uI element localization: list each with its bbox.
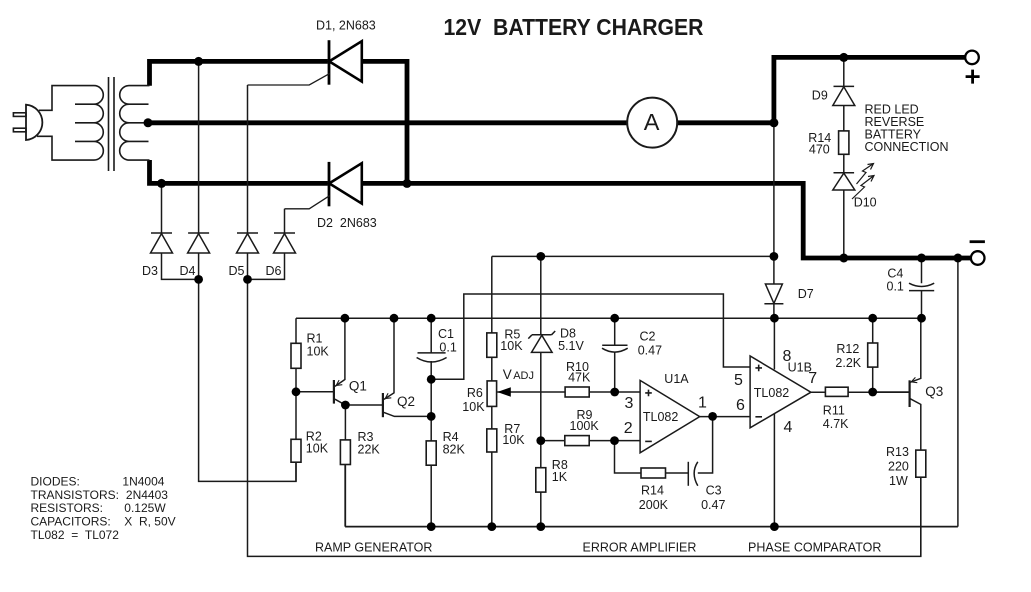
svg-text:200K: 200K (639, 498, 669, 512)
svg-text:U1A: U1A (664, 372, 689, 386)
svg-text:2.2K: 2.2K (835, 356, 861, 370)
svg-text:22K: 22K (358, 443, 381, 457)
svg-text:C3: C3 (706, 484, 722, 498)
svg-text:TRANSISTORS:: TRANSISTORS: (31, 488, 119, 502)
svg-text:4: 4 (784, 419, 793, 436)
svg-text:ERROR AMPLIFIER: ERROR AMPLIFIER (583, 541, 697, 555)
svg-text:5: 5 (734, 372, 743, 389)
svg-text:X R, 50V: X R, 50V (124, 514, 175, 528)
svg-text:R13: R13 (886, 445, 909, 459)
svg-text:10K: 10K (502, 433, 525, 447)
svg-text:R6: R6 (467, 386, 483, 400)
svg-text:10K: 10K (307, 345, 330, 359)
svg-text:1W: 1W (889, 474, 908, 488)
svg-text:RESISTORS:: RESISTORS: (31, 501, 103, 515)
svg-text:D5: D5 (229, 264, 245, 278)
svg-text:5.1V: 5.1V (558, 339, 584, 353)
svg-text:A: A (644, 109, 660, 135)
svg-text:RAMP GENERATOR: RAMP GENERATOR (315, 541, 432, 555)
svg-text:8: 8 (783, 348, 792, 365)
svg-text:DIODES:: DIODES: (31, 474, 80, 488)
svg-text:7: 7 (808, 370, 817, 387)
svg-text:D6: D6 (266, 264, 282, 278)
svg-text:82K: 82K (443, 443, 466, 457)
svg-text:TL082: TL082 (643, 410, 678, 424)
svg-text:D9: D9 (812, 89, 828, 103)
svg-text:47K: 47K (568, 371, 591, 385)
svg-text:Q2: Q2 (397, 394, 415, 409)
svg-text:2: 2 (624, 420, 633, 437)
svg-text:C4: C4 (887, 267, 903, 281)
svg-text:ADJ: ADJ (513, 370, 534, 382)
svg-text:CONNECTION: CONNECTION (865, 140, 949, 154)
svg-text:3: 3 (625, 395, 634, 412)
svg-text:4.7K: 4.7K (823, 417, 849, 431)
svg-text:D1, 2N683: D1, 2N683 (316, 19, 376, 33)
svg-text:1: 1 (698, 395, 707, 412)
svg-text:1N4004: 1N4004 (122, 474, 164, 488)
svg-text:D3: D3 (142, 264, 158, 278)
svg-text:100K: 100K (570, 419, 600, 433)
svg-text:10K: 10K (306, 441, 329, 455)
svg-text:10K: 10K (462, 400, 485, 414)
svg-text:Q3: Q3 (925, 384, 943, 399)
svg-text:0.1: 0.1 (439, 340, 456, 354)
svg-text:PHASE COMPARATOR: PHASE COMPARATOR (748, 541, 881, 555)
svg-text:R11: R11 (823, 403, 845, 417)
svg-text:TL082 = TL072: TL082 = TL072 (31, 528, 120, 542)
svg-text:Q1: Q1 (349, 379, 367, 394)
svg-text:12V BATTERY CHARGER: 12V BATTERY CHARGER (444, 14, 704, 40)
svg-text:470: 470 (809, 143, 830, 157)
svg-text:C1: C1 (438, 327, 454, 341)
svg-text:C2: C2 (640, 330, 656, 344)
svg-text:0.47: 0.47 (638, 344, 662, 358)
svg-text:10K: 10K (500, 339, 523, 353)
svg-text:D2 2N683: D2 2N683 (317, 216, 377, 230)
svg-text:1K: 1K (552, 470, 568, 484)
svg-text:D4: D4 (180, 264, 196, 278)
svg-text:D7: D7 (798, 287, 814, 301)
svg-text:R12: R12 (836, 342, 859, 356)
svg-text:R1: R1 (307, 332, 323, 346)
svg-text:TL082: TL082 (754, 386, 789, 400)
svg-text:2N4403: 2N4403 (126, 488, 168, 502)
svg-text:0.47: 0.47 (701, 498, 725, 512)
svg-text:V: V (503, 367, 512, 382)
svg-text:6: 6 (736, 397, 745, 414)
svg-text:D10: D10 (854, 196, 877, 210)
svg-text:0.1: 0.1 (887, 280, 904, 294)
svg-text:0.125W: 0.125W (124, 501, 166, 515)
svg-text:CAPACITORS:: CAPACITORS: (31, 514, 111, 528)
svg-text:220: 220 (888, 460, 909, 474)
svg-text:R14: R14 (641, 484, 664, 498)
